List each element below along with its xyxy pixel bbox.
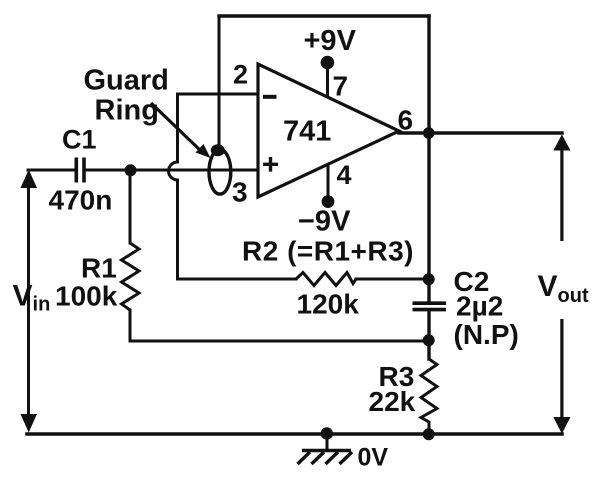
node B (C2/R3 junction) — [423, 334, 435, 346]
node output (pin6 junction) — [423, 127, 435, 139]
capacitor C2 — [413, 303, 447, 309]
svg-text:Guard: Guard — [84, 65, 169, 97]
node A (R2/C2 junction) — [423, 273, 435, 285]
wire bottom ground rail — [27, 432, 562, 436]
svg-text:C1: C1 — [62, 125, 97, 155]
svg-text:2µ2: 2µ2 — [456, 291, 503, 322]
Vout indicator arrow lower — [553, 319, 570, 434]
op-amp plus input symbol — [263, 157, 278, 172]
wire right vertical (output to C2 top) — [427, 16, 430, 302]
svg-text:Ring: Ring — [95, 95, 159, 127]
-9V supply terminal dot — [322, 195, 335, 208]
svg-text:R1: R1 — [81, 253, 117, 284]
wire R1 top lead — [129, 170, 132, 243]
svg-text:100k: 100k — [55, 281, 118, 312]
wire feedback vertical upper — [176, 94, 179, 162]
wire hop over input wire — [168, 162, 177, 180]
svg-text:−9V: −9V — [298, 206, 351, 238]
guard ring top junction blob — [211, 144, 225, 156]
svg-text:R2 (=R1+R3): R2 (=R1+R3) — [242, 236, 414, 267]
wire pin 4 stub — [327, 167, 330, 201]
node ground rail junction — [321, 427, 333, 439]
wire C2 bottom to ground rail — [427, 311, 430, 359]
svg-text:(N.P): (N.P) — [454, 319, 519, 350]
ground symbol — [298, 451, 353, 465]
guard ring ellipse — [209, 150, 231, 195]
wire ground stub — [326, 434, 329, 448]
resistor R3 — [421, 359, 437, 434]
wire pin 2 horizontal — [178, 93, 259, 96]
svg-text:+9V: +9V — [304, 25, 357, 57]
node R3 bottom rail junction — [423, 428, 435, 440]
svg-text:741: 741 — [283, 116, 331, 148]
wire R2 left lead — [178, 278, 297, 281]
guard ring pointer arrow — [151, 103, 211, 158]
+9V supply terminal dot — [321, 56, 335, 70]
Vout indicator arrow upper — [553, 135, 570, 242]
resistor R2 — [296, 273, 356, 286]
node input (C1/R1 junction) — [125, 164, 137, 176]
wire input right segment to pin 3 — [85, 169, 258, 172]
wire top rail — [219, 14, 429, 17]
op-amp minus input symbol — [263, 95, 277, 99]
svg-text:470n: 470n — [49, 185, 113, 216]
resistor R1 — [122, 243, 140, 310]
svg-text:3: 3 — [232, 176, 248, 207]
svg-text:120k: 120k — [297, 289, 360, 320]
svg-text:22k: 22k — [369, 386, 416, 417]
svg-text:6: 6 — [398, 105, 414, 136]
capacitor C1 — [76, 158, 84, 183]
Vin indicator arrow — [21, 170, 38, 433]
svg-text:4: 4 — [337, 160, 352, 190]
op-amp U1 741 triangle — [258, 64, 399, 197]
wire pin 7 stub — [326, 63, 329, 96]
svg-text:0V: 0V — [358, 444, 389, 472]
wire op-amp output — [399, 131, 562, 134]
svg-text:2: 2 — [233, 60, 248, 90]
wire bootstrap horizontal to node B — [130, 340, 429, 343]
wire feedback vertical lower — [176, 180, 179, 279]
wire input left segment — [28, 169, 75, 172]
wire R2 right lead — [356, 278, 429, 281]
wire R1 bottom lead — [129, 310, 132, 341]
svg-text:7: 7 — [333, 71, 349, 102]
wire guard drive drop — [218, 16, 221, 146]
